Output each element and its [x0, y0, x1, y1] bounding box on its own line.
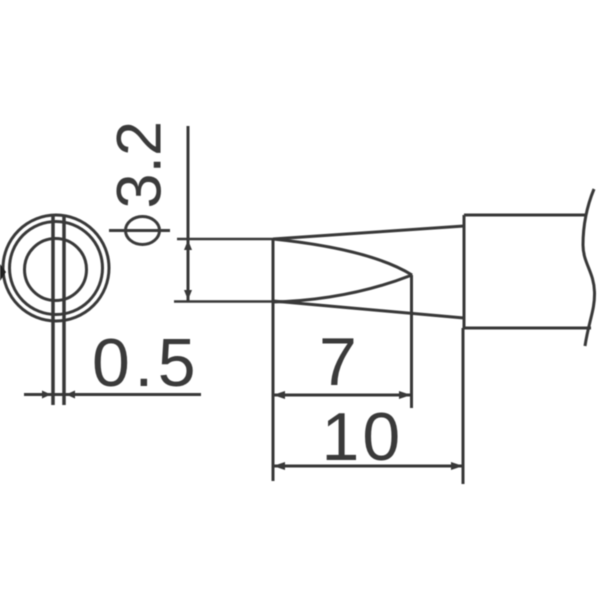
flat edge line left	[51, 215, 55, 405]
svg-text:10: 10	[322, 399, 404, 475]
dimension line phi3.2 vertical	[187, 126, 190, 302]
label phi symbol loop	[126, 217, 160, 245]
tip face edge	[272, 238, 275, 302]
front view inner circle	[25, 239, 87, 301]
sleeve bottom edge	[464, 327, 591, 330]
chisel flat upper curve	[273, 239, 412, 275]
svg-text:0.5: 0.5	[92, 325, 200, 401]
left edge arrow mark	[0, 264, 6, 281]
arrowhead 7 right	[399, 391, 411, 399]
arrowhead phi3.2 bottom	[184, 290, 192, 300]
tip top taper line	[273, 226, 464, 239]
break squiggle	[583, 189, 595, 346]
sleeve left edge	[463, 215, 466, 328]
arrowhead 10 right	[451, 462, 463, 470]
arrowhead 0.5 left	[42, 391, 51, 399]
svg-text:3.2: 3.2	[105, 121, 175, 209]
arrowhead 0.5 right	[66, 391, 75, 399]
label phi symbol stem	[109, 229, 170, 232]
dimension line 0.5	[24, 393, 201, 396]
tip bottom taper line	[273, 301, 464, 318]
sleeve top edge	[464, 214, 585, 217]
face extension line down	[272, 302, 275, 481]
arrowhead phi3.2 top	[184, 240, 192, 250]
extension line phi3.2 bottom	[174, 300, 276, 303]
vertex extension line (7)	[410, 275, 413, 408]
dimension line 7	[273, 394, 411, 397]
svg-text:7: 7	[319, 324, 357, 400]
front view outer circle	[3, 215, 109, 321]
chisel flat lower curve	[273, 275, 412, 302]
dimension line 10	[273, 465, 463, 468]
arrowhead 10 left	[273, 462, 285, 470]
front view middle ring	[10, 222, 103, 315]
arrowhead 7 left	[273, 391, 285, 399]
flat edge line right	[62, 215, 66, 405]
sleeve extension line down (10)	[462, 328, 465, 484]
extension line phi3.2 top	[177, 238, 274, 241]
